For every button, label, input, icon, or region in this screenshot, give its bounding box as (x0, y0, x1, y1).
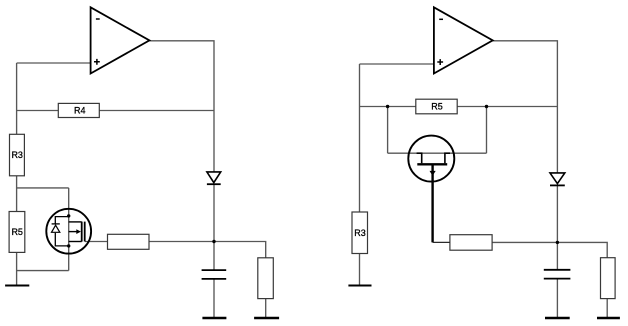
svg-text:R5: R5 (11, 227, 23, 237)
svg-text:R3: R3 (354, 228, 366, 238)
svg-text:R5: R5 (431, 102, 443, 112)
svg-text:R4: R4 (74, 106, 86, 116)
svg-text:R3: R3 (11, 150, 23, 160)
